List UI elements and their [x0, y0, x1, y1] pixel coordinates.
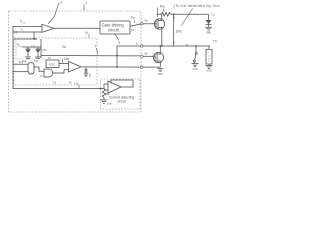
svg-text:Rw: Rw	[160, 5, 165, 9]
svg-text:GND: GND	[206, 71, 211, 73]
svg-text:17a: 17a	[74, 82, 79, 86]
svg-text:TS: TS	[213, 39, 217, 43]
svg-text:9a: 9a	[145, 19, 149, 23]
svg-text:9b: 9b	[145, 52, 149, 56]
svg-text:OSC: OSC	[49, 63, 56, 67]
svg-text:GND: GND	[192, 69, 197, 71]
svg-text:ΔVs: ΔVs	[176, 29, 183, 33]
svg-text:Vd: Vd	[62, 45, 66, 49]
svg-text:10: 10	[14, 31, 18, 35]
svg-text:(To be detected by flux: (To be detected by flux	[174, 4, 220, 8]
svg-text:LD: LD	[212, 14, 215, 16]
svg-text:Rg: Rg	[131, 16, 135, 20]
svg-text:CC: CC	[23, 22, 27, 24]
svg-text:C1a: C1a	[31, 45, 36, 49]
svg-text:4: 4	[119, 41, 121, 45]
svg-text:1b: 1b	[85, 31, 89, 35]
svg-text:S1b: S1b	[34, 61, 39, 63]
svg-text:12: 12	[131, 28, 135, 32]
svg-text:7: 7	[95, 45, 97, 49]
svg-text:TH: TH	[19, 61, 24, 65]
svg-text:circuit: circuit	[108, 28, 120, 33]
svg-text:circuit: circuit	[117, 100, 126, 104]
svg-text:8: 8	[89, 74, 91, 78]
svg-text:16b: 16b	[107, 102, 112, 106]
svg-text:7b: 7b	[186, 43, 190, 47]
svg-text:C1b: C1b	[42, 48, 47, 52]
svg-text:GND: GND	[158, 74, 163, 76]
svg-text:14a: 14a	[64, 57, 70, 61]
svg-text:GND: GND	[206, 33, 211, 35]
svg-text:1: 1	[86, 1, 88, 5]
svg-text:2: 2	[60, 1, 62, 5]
